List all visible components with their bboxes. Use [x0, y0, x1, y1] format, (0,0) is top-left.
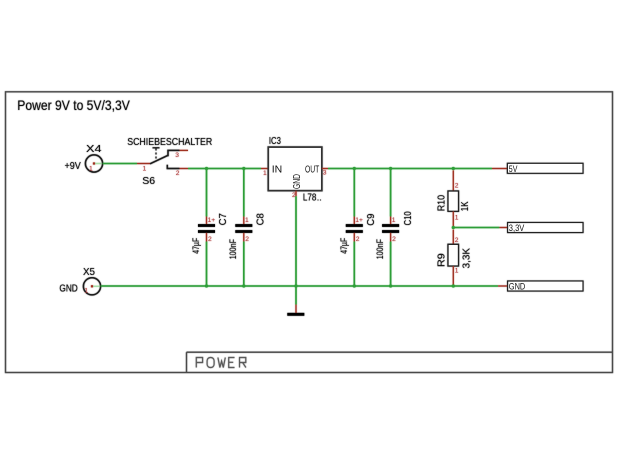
value SCHIEBESCHALTER: [127, 136, 212, 148]
name R10: [436, 195, 448, 212]
svg-text:100nF: 100nF: [375, 239, 385, 260]
voltage regulator IC3: [261, 147, 328, 196]
svg-text:2: 2: [356, 236, 360, 243]
junction gnd rail C9: [353, 284, 356, 287]
svg-text:1K: 1K: [459, 202, 471, 212]
svg-text:Power 9V to 5V/3,3V: Power 9V to 5V/3,3V: [17, 97, 130, 113]
svg-text:C10: C10: [402, 211, 414, 225]
svg-text:1+: 1+: [355, 217, 363, 224]
name C7: [217, 213, 229, 225]
wire C9 to gnd rail: [353, 242, 355, 287]
svg-text:2: 2: [176, 170, 180, 177]
capacitor C9: [346, 217, 363, 242]
junction gnd rail C7: [205, 284, 208, 287]
pin 1 of C10: [392, 217, 396, 224]
pin 2 of R10: [455, 182, 459, 189]
name C9: [365, 213, 377, 225]
svg-text:1: 1: [245, 217, 249, 224]
svg-text:GND: GND: [59, 283, 78, 295]
value 47µF of C9: [339, 237, 349, 253]
junction at C9 top: [353, 167, 356, 170]
svg-text:R10: R10: [436, 195, 448, 212]
pin 2 GND of IC3: [292, 192, 296, 199]
svg-text:R9: R9: [436, 253, 448, 267]
svg-text:2: 2: [392, 236, 396, 243]
net label 3,3V: [499, 223, 583, 235]
pin 1 of X4: [89, 165, 93, 172]
junction at C8 top: [242, 167, 245, 170]
name R9: [436, 253, 448, 267]
wire down to C9: [353, 169, 355, 217]
name X5: [83, 266, 95, 278]
svg-text:1: 1: [392, 217, 396, 224]
resistor R10: [448, 170, 459, 227]
pin 2 of C10: [392, 236, 396, 243]
svg-text:SCHIEBESCHALTER: SCHIEBESCHALTER: [127, 136, 212, 148]
pin name IN: [272, 163, 283, 175]
pin 1 of S6: [143, 165, 147, 172]
svg-text:S6: S6: [142, 175, 155, 187]
wire C10 to gnd rail: [390, 242, 392, 287]
svg-text:3: 3: [175, 152, 179, 159]
wire 3,3V node to label: [453, 227, 499, 229]
svg-text:..: ..: [317, 193, 322, 203]
svg-text:1+: 1+: [208, 217, 216, 224]
switch S6: [137, 148, 188, 169]
wire down to C10: [390, 169, 392, 217]
junction at 3,3V node: [452, 226, 455, 229]
pin 2 of C8: [245, 236, 249, 243]
svg-text:1: 1: [143, 165, 147, 172]
svg-text:3,3V: 3,3V: [509, 223, 525, 234]
resistor R9: [448, 230, 459, 286]
svg-text:2: 2: [455, 237, 459, 244]
svg-text:1: 1: [89, 165, 93, 172]
name C10: [402, 211, 414, 225]
svg-text:C8: C8: [254, 213, 266, 225]
name S6: [142, 175, 155, 187]
net label 5V: [492, 163, 583, 175]
svg-text:X5: X5: [83, 266, 95, 278]
sheet title text: [17, 97, 130, 113]
wire C7 to gnd rail: [206, 242, 208, 287]
svg-text:IN: IN: [272, 163, 283, 175]
name C8: [254, 213, 266, 225]
wire C8 to gnd rail: [243, 242, 245, 287]
wire down to C8: [243, 169, 245, 217]
svg-text:2: 2: [208, 236, 212, 243]
svg-text:47µF: 47µF: [339, 237, 349, 253]
net label GND at X5: [59, 283, 78, 295]
svg-text:5V: 5V: [509, 164, 518, 175]
junction at R10 top: [452, 167, 455, 170]
junction gnd rail R9: [452, 284, 455, 287]
pin 2 of S6: [176, 170, 180, 177]
svg-text:2: 2: [245, 236, 249, 243]
svg-text:C9: C9: [365, 213, 377, 225]
title block box: [187, 352, 613, 372]
pin 3 OUT of IC3: [323, 170, 327, 177]
pin 1 IN of IC3: [263, 170, 267, 177]
wire IC3 OUT 5V rail: [328, 168, 492, 170]
capacitor C7: [198, 217, 215, 242]
ground symbol: [287, 286, 304, 314]
svg-text:3: 3: [323, 170, 327, 177]
junction at C7 top: [205, 167, 208, 170]
pin 1 of X5: [84, 288, 88, 295]
svg-text:1: 1: [455, 214, 459, 221]
pin 1 of R9: [455, 268, 459, 275]
wire X4 to S6: [103, 163, 138, 165]
value L78: [303, 193, 322, 204]
pin 1 of C8: [245, 217, 249, 224]
schematic frame border: [6, 92, 613, 373]
svg-text:1: 1: [455, 268, 459, 275]
value 100nF of C10: [375, 239, 385, 260]
connector X5: [83, 278, 100, 295]
wire IC3 GND down: [295, 196, 297, 286]
junction at C10 top: [389, 167, 392, 170]
junction gnd rail IC3: [294, 284, 297, 287]
svg-text:L78: L78: [303, 193, 317, 204]
value 3,3K of R9: [461, 248, 473, 269]
net label +9V: [65, 160, 81, 172]
value 47µF of C7: [191, 237, 201, 253]
pin 1 of R10: [455, 214, 459, 221]
pin 2 of C9: [356, 236, 360, 243]
junction gnd rail C10: [389, 284, 392, 287]
name IC3: [269, 135, 281, 147]
svg-text:C7: C7: [217, 213, 229, 225]
svg-text:OUT: OUT: [305, 163, 320, 175]
svg-text:1: 1: [263, 170, 267, 177]
capacitor C10: [382, 217, 399, 242]
svg-text:X4: X4: [86, 143, 102, 155]
capacitor C8: [235, 217, 252, 242]
svg-text:GND: GND: [509, 281, 526, 292]
pin 3 of S6: [175, 152, 179, 159]
wire gnd rail: [100, 285, 498, 287]
svg-text:IC3: IC3: [269, 135, 281, 147]
svg-text:+9V: +9V: [65, 160, 81, 172]
svg-text:100nF: 100nF: [228, 239, 238, 260]
svg-text:1: 1: [84, 288, 88, 295]
value 100nF of C8: [228, 239, 238, 260]
svg-text:2: 2: [455, 182, 459, 189]
wire S6 to IC3 IN: [188, 168, 261, 170]
pin 1+ of C9: [355, 217, 363, 224]
svg-text:47µF: 47µF: [191, 237, 201, 253]
pin 2 of R9: [455, 237, 459, 244]
value 1K of R10: [459, 202, 471, 212]
connector X4: [85, 155, 102, 172]
pin 1+ of C7: [208, 217, 216, 224]
svg-text:3,3K: 3,3K: [461, 248, 473, 269]
pin name GND: [291, 174, 303, 189]
junction gnd rail C8: [242, 284, 245, 287]
title block text POWER: [196, 358, 246, 368]
svg-text:GND: GND: [291, 174, 303, 189]
pin name OUT: [305, 163, 320, 175]
name X4: [86, 143, 102, 155]
net label GND: [498, 281, 583, 292]
pin 2 of C7: [208, 236, 212, 243]
wire down to C7: [206, 169, 208, 217]
